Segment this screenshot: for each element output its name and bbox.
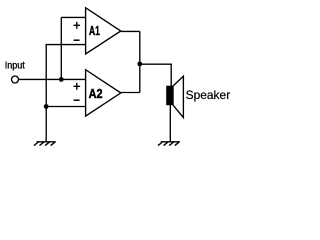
wire junction to speaker	[140, 64, 171, 86]
wire A1 + input	[61, 16, 86, 18]
wire ground riser	[45, 44, 47, 141]
svg-text:Speaker: Speaker	[186, 88, 231, 102]
speaker	[166, 76, 183, 117]
ground left	[34, 142, 56, 146]
wire output bus	[139, 31, 141, 92]
plus label A2	[74, 83, 81, 90]
op-amp A1	[86, 8, 121, 54]
junction node at outputs	[137, 62, 142, 67]
minus label A2	[74, 99, 80, 101]
svg-text:A1: A1	[89, 24, 100, 38]
wire A2 - input	[46, 106, 86, 108]
wire A2 output	[121, 92, 140, 94]
junction node at inverting inputs	[44, 104, 49, 109]
junction node at input	[59, 77, 64, 82]
svg-text:A2: A2	[89, 87, 103, 101]
wire speaker to ground	[169, 105, 171, 141]
svg-text:Input: Input	[5, 61, 25, 72]
plus label A1	[74, 22, 81, 29]
input terminal	[12, 76, 19, 83]
wire A1 output	[121, 30, 140, 32]
wire input to A2 + input	[19, 78, 86, 80]
ground under speaker	[158, 142, 180, 146]
wire A1 - input	[46, 44, 86, 46]
wire riser input to A1 + input	[60, 17, 62, 79]
minus label A1	[74, 39, 80, 41]
op-amp A2	[86, 70, 121, 116]
